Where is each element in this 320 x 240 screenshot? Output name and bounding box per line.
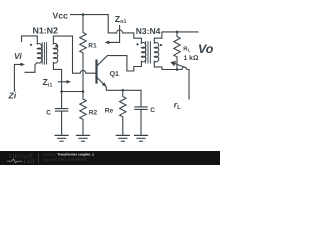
junction dot emitter/Re: [122, 89, 125, 92]
wire T2 secondary top to output: [154, 32, 198, 43]
resistor R1: [80, 15, 86, 92]
annotation Zo1 arrow: [107, 26, 120, 43]
junction dot bias rail left: [60, 90, 63, 93]
wire T1 secondary bottom to bias rail: [53, 63, 61, 92]
junction dot output bottom/RL: [176, 68, 179, 71]
transformer T1 core: [42, 43, 46, 64]
transformer T2 core: [146, 42, 151, 63]
resistor RL: [174, 32, 180, 70]
svg-text:R2: R2: [89, 110, 98, 117]
polarity dot T1 secondary: [55, 45, 57, 47]
resistor Re: [120, 90, 126, 135]
annotation Zi arrow: [14, 64, 21, 91]
watermark logo CIRCUIT LAB: [7, 154, 35, 165]
annotation rL arrow: [175, 63, 186, 68]
svg-text:Vo: Vo: [198, 42, 214, 56]
wire bias rail node: [62, 91, 83, 93]
arrowhead Zi1: [67, 80, 72, 84]
wire T2 secondary bottom to output (with hop over rL arrow): [154, 61, 189, 99]
wire Vcc rail to T2 primary top (with hop over Zo1 arrow): [71, 15, 142, 44]
ground G2: [77, 135, 90, 141]
polarity dot T2 secondary: [160, 44, 162, 46]
svg-text:C: C: [46, 109, 51, 116]
svg-text:Zo1: Zo1: [115, 14, 127, 25]
transformer T2 secondary winding: [154, 43, 158, 62]
ground G1: [55, 135, 68, 141]
svg-text:Zi1: Zi1: [43, 77, 53, 88]
transformer T1 secondary winding: [53, 44, 57, 64]
junction dot Vcc/R1: [82, 13, 85, 16]
svg-text:Zi: Zi: [8, 91, 17, 101]
svg-text:rL: rL: [174, 99, 181, 110]
wire T1 primary bottom terminal: [25, 63, 37, 73]
svg-text:R1: R1: [88, 42, 97, 49]
arrowhead Zi: [21, 63, 26, 67]
arrowhead Zo1: [105, 41, 110, 45]
svg-text:LAB: LAB: [24, 159, 35, 165]
wire T1 secondary top to Q1 base (with hop over R1 wire): [53, 36, 95, 73]
polarity dot T1 primary: [30, 44, 32, 46]
svg-text:Vi: Vi: [14, 51, 22, 61]
junction dot bias rail right: [82, 90, 85, 93]
ground G4: [135, 135, 148, 141]
svg-text:RL: RL: [183, 45, 190, 52]
wire Q1 collector to T2 primary bottom: [97, 56, 142, 71]
resistor R2: [80, 92, 86, 136]
ground G3: [116, 135, 129, 141]
transformer T1 primary winding: [37, 44, 41, 64]
svg-text:Q1: Q1: [110, 71, 119, 78]
svg-text:1 kΩ: 1 kΩ: [184, 55, 199, 62]
wire T1 primary top terminal: [22, 36, 38, 44]
junction dot output top/RL: [176, 31, 179, 34]
transformer T2 primary winding: [141, 43, 145, 62]
wire Q1 emitter node: [106, 87, 141, 91]
svg-text:Vcc: Vcc: [53, 10, 69, 20]
watermark text: [44, 153, 95, 162]
capacitor C2: [135, 90, 147, 135]
svg-text:C: C: [150, 107, 155, 114]
polarity dot T2 primary: [136, 43, 138, 45]
watermark divider: [38, 153, 40, 164]
arrowhead Q1 emitter: [102, 82, 107, 87]
transistor Q1: [95, 61, 97, 83]
svg-text:Re: Re: [105, 108, 114, 115]
annotation Zi1 arrow: [59, 81, 69, 83]
watermark bar: [0, 151, 220, 165]
arrowhead rL: [170, 61, 176, 67]
svg-text:N3:N4: N3:N4: [136, 26, 161, 36]
svg-text:shashu / Transformer coupler_1: shashu / Transformer coupler_1: [44, 153, 95, 157]
svg-text:http://circuitlab.com/c886a8y: http://circuitlab.com/c886a8y: [44, 158, 87, 162]
capacitor C1: [55, 92, 67, 136]
svg-text:N1:N2: N1:N2: [33, 25, 59, 35]
